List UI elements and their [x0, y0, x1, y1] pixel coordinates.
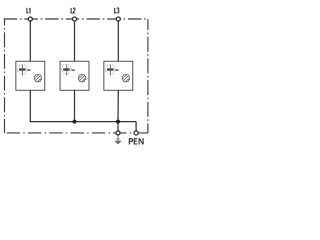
- wire: left supply continuation (dash-dot vertical): [4, 19, 6, 133]
- wire: F2 output down to bus: [74, 90, 76, 121]
- disconnector arrow of F2: [71, 69, 76, 71]
- terminal L3 (circle): [116, 17, 120, 21]
- disconnector arrow of F3: [115, 69, 120, 71]
- wire: bottom PEN conductor (dash-dot): [5, 132, 148, 134]
- node L3 label: [115, 8, 119, 13]
- terminal PEN (circle): [134, 131, 138, 135]
- spark-gap symbol of F1: electrode bar: [19, 68, 26, 71]
- terminal PE/ground (circle): [116, 131, 120, 135]
- wire: L3 drop to arrester F3: [117, 21, 119, 61]
- SPD arrester F2 enclosure: [60, 61, 89, 90]
- spark-gap symbol of F3: dashed circle: [105, 64, 115, 74]
- node L2 label: [71, 8, 75, 13]
- wire: right supply continuation (dash-dot vertical): [147, 19, 149, 133]
- SPD arrester F3 enclosure: [104, 61, 133, 90]
- terminal L1 (circle): [28, 17, 32, 21]
- node L1 label: [27, 8, 30, 13]
- spark-gap symbol of F2: vertical electrode line: [66, 65, 68, 76]
- spark-gap symbol of F1: vertical electrode line: [22, 65, 24, 76]
- wire: L2 drop to arrester F2: [74, 21, 76, 61]
- disconnector arrow of F1: [27, 69, 32, 71]
- wire: L1 drop to arrester F1: [29, 21, 31, 61]
- spark-gap symbol of F1: dashed circle: [17, 64, 27, 74]
- follow-current limiting (gear) symbol of F1: [34, 74, 43, 83]
- wire: F1 output down + PE bus to right corner: [30, 90, 136, 121]
- wire: bus drop to PEN terminal 2: [135, 122, 137, 131]
- ground (earth electrode arrow): [114, 135, 121, 144]
- wire: F3 output down through bus to PEN terminal: [117, 90, 119, 130]
- follow-current limiting (gear) symbol of F3: [122, 74, 131, 83]
- SPD arrester F1 enclosure: [16, 61, 45, 90]
- spark-gap symbol of F3: vertical electrode line: [110, 65, 112, 76]
- follow-current limiting (gear) symbol of F2: [78, 74, 87, 83]
- spark-gap symbol of F2: electrode bar: [63, 68, 69, 71]
- spark-gap symbol of F2: dashed circle: [62, 64, 72, 74]
- junction dot F2/bus: [73, 120, 77, 124]
- net label PEN: [129, 138, 143, 144]
- wire: top phase line (dash-dot): [4, 18, 148, 20]
- terminal L2 (circle): [72, 17, 76, 21]
- junction dot F3/bus: [116, 120, 120, 124]
- spark-gap symbol of F3: electrode bar: [107, 68, 114, 71]
